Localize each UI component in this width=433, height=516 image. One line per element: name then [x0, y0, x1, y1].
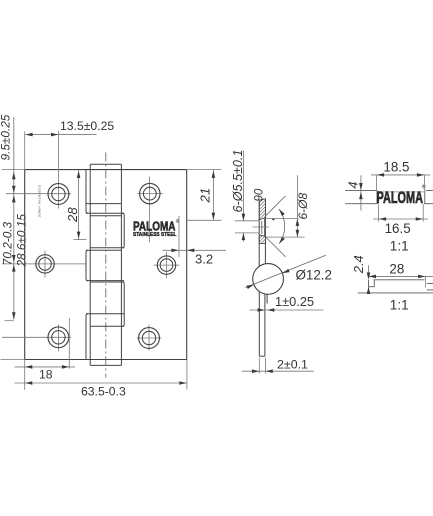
svg-text:2.4: 2.4 — [351, 255, 366, 274]
dimension 18 bottom — [15, 318, 76, 390]
dimension 28.6±0.15 left — [12, 195, 29, 267]
dimension 3.2 — [163, 216, 226, 267]
hole bottom-right — [137, 325, 162, 351]
dimension 18.5 — [371, 159, 430, 190]
svg-text:28: 28 — [65, 207, 80, 223]
left leaf wrap edges — [86, 170, 88, 360]
svg-text:®: ® — [422, 184, 426, 191]
90 degree arc with arrows — [279, 209, 285, 244]
dimension 4 (stamp depth) — [346, 175, 363, 210]
hole bottom-left — [2, 325, 71, 352]
svg-text:4: 4 — [346, 181, 361, 188]
svg-text:90: 90 — [253, 188, 265, 201]
dimension 16.5 — [373, 204, 428, 236]
right leaf wrap edges — [122, 213, 124, 326]
leaf section strip edges — [259, 199, 267, 356]
dimension 9.5±0.25 left — [0, 114, 25, 359]
PALOMA logo 1:1 — [377, 184, 426, 208]
dimension 2±0.1 — [242, 357, 314, 373]
svg-text:70.2-0.3: 70.2-0.3 — [1, 221, 15, 265]
svg-text:28.6±0.15: 28.6±0.15 — [15, 214, 29, 268]
svg-text:ESSENTIAL HINGE: ESSENTIAL HINGE — [38, 185, 42, 217]
dimension 6-Ø8 — [266, 175, 311, 237]
svg-text:63.5-0.3: 63.5-0.3 — [81, 385, 126, 399]
center dot — [272, 218, 274, 220]
barrel knuckle column — [86, 164, 124, 365]
dimension 1±0.25 — [250, 294, 324, 312]
leaf cross-section 1:1 — [358, 280, 433, 293]
barrel circle Ø12.2 — [253, 264, 284, 295]
PALOMA logo stamp on leaf — [133, 218, 180, 238]
barrel centerline — [105, 153, 107, 378]
svg-text:6-Ø8: 6-Ø8 — [296, 192, 310, 219]
stamp recess bottom line — [378, 191, 425, 193]
svg-text:1:1: 1:1 — [390, 298, 409, 313]
countersink lower hatched section — [259, 235, 265, 244]
countersink upper hatched section — [259, 199, 265, 220]
Ø12.2 leader line — [245, 255, 325, 287]
svg-text:3.2: 3.2 — [195, 252, 213, 267]
svg-text:1:1: 1:1 — [390, 238, 409, 253]
svg-text:1±0.25: 1±0.25 — [275, 294, 314, 309]
hole top-right — [138, 177, 164, 243]
svg-text:2±0.1: 2±0.1 — [277, 357, 308, 371]
svg-text:6-Ø5.5±0.1: 6-Ø5.5±0.1 — [231, 150, 245, 213]
hole mid-left — [2, 251, 85, 278]
svg-text:16.5: 16.5 — [385, 221, 411, 236]
svg-text:21: 21 — [197, 188, 212, 204]
hole top-left — [6, 131, 71, 209]
countersink 45 deg construction lines — [266, 196, 286, 216]
hole mid-right — [154, 252, 180, 279]
dimension 28 (hole spacing) — [65, 170, 87, 240]
hinge leaf plate outline — [25, 170, 187, 360]
svg-text:13.5±0.25: 13.5±0.25 — [60, 119, 114, 133]
svg-text:9.5±0.25: 9.5±0.25 — [0, 114, 12, 160]
svg-text:PALOMA: PALOMA — [377, 188, 424, 207]
dimension 6-Ø5.5±0.1 — [231, 150, 259, 242]
svg-text:18.5: 18.5 — [383, 159, 409, 174]
dimension 28 (section) — [369, 261, 433, 287]
svg-text:28: 28 — [389, 261, 404, 276]
dimension 2.4 (section thickness) — [351, 255, 371, 294]
dimension 21 right — [187, 170, 222, 221]
dimension 13.5±0.25 top — [25, 119, 115, 170]
svg-text:STAINLESS STEEL: STAINLESS STEEL — [133, 232, 177, 238]
svg-text:18: 18 — [39, 367, 53, 381]
logo stamp detail 1:1 surface lines — [345, 190, 433, 203]
dimension 63.5-0.3 bottom — [15, 360, 187, 399]
dimension 70.2-0.3 left lower — [1, 221, 16, 320]
svg-text:Ø12.2: Ø12.2 — [296, 268, 332, 283]
hole center mark — [253, 226, 270, 228]
